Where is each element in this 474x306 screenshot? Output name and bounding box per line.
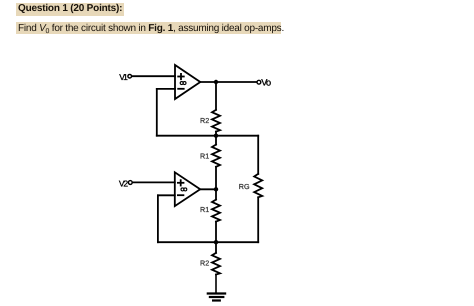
svg-text:RG: RG <box>239 182 250 191</box>
svg-text:R2: R2 <box>200 116 209 125</box>
svg-text:Vo: Vo <box>261 77 271 87</box>
svg-text:V1: V1 <box>119 72 128 82</box>
svg-text:V2: V2 <box>119 178 128 188</box>
svg-text:R2: R2 <box>200 259 209 268</box>
svg-text:R1: R1 <box>200 205 209 214</box>
svg-text:R1: R1 <box>200 152 209 161</box>
